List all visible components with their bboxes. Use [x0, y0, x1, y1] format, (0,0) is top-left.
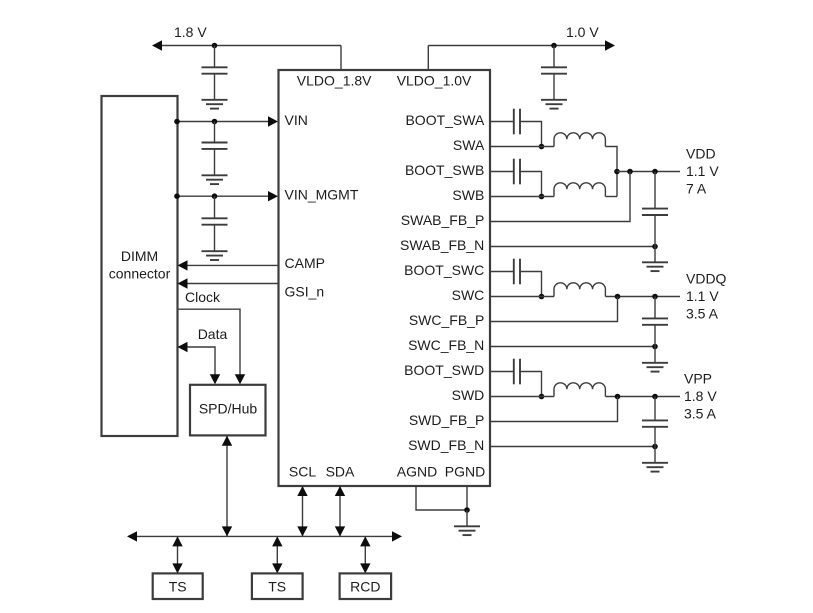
wire VIN_MGMT	[177, 195, 269, 197]
wire SWAB_FB_P	[490, 172, 630, 222]
arrowhead bus left	[127, 531, 137, 541]
svg-text:SWAB_FB_N: SWAB_FB_N	[400, 237, 484, 253]
capacitor C11 VPP output	[642, 397, 668, 447]
wire VLDO_1.8V to rail	[340, 46, 342, 72]
wire bus to RCD	[364, 536, 366, 573]
wire VLDO_1.0V to rail	[427, 46, 429, 72]
wire SDA to bus	[339, 486, 341, 536]
svg-text:1.1 V: 1.1 V	[686, 163, 719, 179]
wire I2C bus	[136, 535, 393, 537]
arrowhead bus to TS2 up	[272, 536, 282, 546]
node junction BOOT_SWC switch	[539, 294, 545, 300]
capacitor C7 VDD output	[642, 172, 668, 247]
wire Clock DIMM to SPD/Hub	[178, 309, 241, 375]
svg-text:SCL: SCL	[289, 464, 316, 480]
wire SWD_FB_P	[490, 397, 618, 422]
capacitor C5 bootstrap	[514, 109, 520, 135]
wire BOOT_SWD boot	[490, 371, 514, 373]
block TS2	[252, 573, 303, 599]
svg-text:VIN: VIN	[285, 112, 308, 128]
inductor L3 on SWC	[554, 283, 605, 297]
capacitor C8 bootstrap	[514, 259, 520, 285]
svg-text:3.5 A: 3.5 A	[684, 406, 717, 422]
ground GND6	[642, 347, 668, 372]
wire SWC_FB_N	[490, 346, 655, 348]
arrowhead SDA to bus up	[335, 486, 345, 496]
wire SWAB_FB_N	[490, 246, 655, 248]
arrowhead bus to RCD down	[360, 563, 370, 573]
wire SWD	[490, 396, 554, 398]
svg-text:Clock: Clock	[185, 289, 221, 305]
svg-text:3.5 A: 3.5 A	[686, 306, 719, 322]
svg-text:1.8 V: 1.8 V	[174, 24, 207, 40]
svg-text:1.8 V: 1.8 V	[684, 388, 717, 404]
svg-text:1.1 V: 1.1 V	[686, 288, 719, 304]
wire SWB inductor out	[605, 196, 617, 198]
wire SWB	[490, 196, 554, 198]
node junction BOOT_SWD switch	[539, 394, 545, 400]
svg-text:CAMP: CAMP	[285, 255, 325, 271]
net VDDQ rail	[605, 296, 680, 298]
capacitor C6 bootstrap	[514, 159, 520, 185]
node junction VIN at DIMM	[174, 119, 180, 125]
svg-text:RCD: RCD	[350, 578, 380, 594]
net 1.0V rail wire	[428, 45, 606, 47]
svg-text:SWD: SWD	[452, 387, 485, 403]
arrowhead SPD/Hub to bus down	[222, 526, 232, 536]
node junction VDDQ FB tap	[615, 294, 621, 300]
svg-text:VLDO_1.0V: VLDO_1.0V	[397, 73, 472, 89]
arrowhead Data into DIMM	[178, 342, 188, 352]
ground GND1	[202, 100, 228, 109]
svg-text:7 A: 7 A	[686, 181, 707, 197]
node junction VPP cap tap	[652, 394, 658, 400]
wire BOOT_SWC boot	[490, 271, 514, 273]
capacitor C10 bootstrap	[514, 359, 520, 385]
capacitor C9 VDDQ output	[642, 297, 668, 347]
wire SCL to bus	[302, 486, 304, 536]
capacitor C3 on VIN	[202, 122, 228, 176]
node junction VIN_MGMT cap tap	[212, 193, 218, 199]
arrowhead bus right	[392, 531, 402, 541]
node junction VDD phase join	[614, 169, 620, 175]
node junction VPP FB tap	[615, 394, 621, 400]
svg-text:SWC: SWC	[452, 287, 485, 303]
svg-text:TS: TS	[268, 578, 286, 594]
node junction VIN cap tap	[212, 119, 218, 125]
wire PGND	[466, 486, 468, 510]
arrowhead VIN_MGMT into U1	[268, 191, 278, 201]
svg-text:SWB: SWB	[452, 187, 484, 203]
wire bus to TS1	[177, 536, 179, 573]
svg-text:TS: TS	[169, 578, 187, 594]
node junction BOOT_SWB switch	[539, 194, 545, 200]
node junction VDD FB tap	[627, 169, 633, 175]
arrowhead 1.0V rail right	[605, 40, 615, 50]
wire AGND	[416, 486, 467, 510]
svg-text:SWC_FB_N: SWC_FB_N	[408, 337, 484, 353]
block DIMM connector	[102, 96, 178, 436]
svg-text:SDA: SDA	[326, 464, 355, 480]
ground GND3	[202, 175, 228, 184]
svg-text:VDD: VDD	[686, 146, 716, 162]
inductor L2 on SWB	[554, 183, 605, 197]
net VDD rail	[617, 171, 680, 173]
arrowhead Clock into SPD/Hub	[235, 374, 245, 384]
svg-text:1.0 V: 1.0 V	[566, 24, 599, 40]
svg-text:VPP: VPP	[684, 371, 712, 387]
svg-text:AGND: AGND	[397, 464, 437, 480]
wire SWA	[490, 146, 554, 148]
node junction SWD_FB_N	[652, 444, 658, 450]
wire BOOT_SWA boot	[490, 121, 514, 123]
svg-text:Data: Data	[198, 326, 228, 342]
svg-text:BOOT_SWA: BOOT_SWA	[405, 112, 484, 128]
arrowhead GSI_n into DIMM	[178, 278, 188, 288]
arrowhead VIN into U1	[268, 116, 278, 126]
wire BOOT_SWB boot	[490, 171, 514, 173]
node junction VIN_MGMT at DIMM	[174, 193, 180, 199]
arrowhead SDA to bus down	[335, 526, 345, 536]
arrowhead bus to TS1 down	[172, 563, 182, 573]
svg-text:SWD_FB_N: SWD_FB_N	[408, 437, 484, 453]
arrowhead bus to RCD up	[360, 536, 370, 546]
ground GND8	[454, 510, 480, 535]
arrowhead 1.8V rail left	[152, 40, 162, 50]
node junction VDDQ cap tap	[652, 294, 658, 300]
node junction SWAB_FB_N	[652, 244, 658, 250]
svg-text:GSI_n: GSI_n	[285, 284, 325, 300]
svg-text:SWAB_FB_P: SWAB_FB_P	[401, 212, 485, 228]
svg-text:PGND: PGND	[445, 464, 485, 480]
wire bus to TS2	[276, 536, 278, 573]
wire SWD_FB_N	[490, 446, 655, 448]
wire Data DIMM to SPD/Hub	[187, 347, 215, 375]
IC U1 body	[279, 70, 491, 486]
svg-text:BOOT_SWB: BOOT_SWB	[405, 162, 484, 178]
node junction 1.0V cap tap	[551, 43, 557, 49]
svg-text:DIMM: DIMM	[121, 248, 158, 264]
arrowhead bus to TS2 down	[272, 563, 282, 573]
wire GSI_n	[187, 283, 279, 285]
arrowhead SCL to bus up	[297, 486, 307, 496]
capacitor C4 on VIN_MGMT	[202, 196, 228, 251]
node junction SWC_FB_N	[652, 344, 658, 350]
wire SWA inductor to VDD node	[605, 147, 617, 197]
block SPD/Hub	[190, 385, 266, 436]
wire BOOT_SWD boot to switch node	[520, 372, 542, 397]
node junction AGND-PGND	[464, 507, 470, 513]
svg-text:VLDO_1.8V: VLDO_1.8V	[297, 73, 372, 89]
wire BOOT_SWB boot to switch node	[520, 172, 542, 197]
node junction BOOT_SWA switch	[539, 144, 545, 150]
wire VIN	[177, 121, 269, 123]
capacitor C2 on 1.0V rail	[541, 46, 567, 100]
svg-text:SWC_FB_P: SWC_FB_P	[409, 312, 484, 328]
arrowhead Data into SPD/Hub	[210, 374, 220, 384]
wire CAMP	[187, 264, 279, 266]
svg-text:SWD_FB_P: SWD_FB_P	[409, 412, 484, 428]
svg-text:VIN_MGMT: VIN_MGMT	[285, 187, 359, 203]
wire SPD/Hub to bus	[226, 436, 228, 537]
wire SWC_FB_P	[490, 297, 618, 322]
net VPP rail	[605, 396, 680, 398]
svg-text:SWA: SWA	[453, 137, 485, 153]
inductor L4 on SWD	[554, 383, 605, 397]
svg-text:SPD/Hub: SPD/Hub	[199, 400, 258, 416]
svg-text:VDDQ: VDDQ	[686, 271, 727, 287]
svg-text:BOOT_SWC: BOOT_SWC	[404, 262, 484, 278]
svg-text:connector: connector	[109, 265, 171, 281]
arrowhead SPD/Hub to bus up	[222, 436, 232, 446]
wire BOOT_SWA boot to switch node	[520, 122, 542, 147]
arrowhead bus to TS1 up	[172, 536, 182, 546]
capacitor C1 on 1.8V rail	[202, 46, 228, 100]
arrowhead SCL to bus down	[297, 526, 307, 536]
ground GND5	[642, 247, 668, 272]
wire BOOT_SWC boot to switch node	[520, 272, 542, 297]
svg-text:BOOT_SWD: BOOT_SWD	[404, 362, 484, 378]
ground GND4	[202, 251, 228, 260]
node junction VDD cap tap	[652, 169, 658, 175]
ground GND2	[541, 100, 567, 109]
block TS1	[153, 573, 203, 599]
arrowhead CAMP into DIMM	[178, 260, 188, 270]
inductor L1 on SWA	[554, 133, 605, 147]
wire SWC	[490, 296, 554, 298]
net 1.8V rail wire	[160, 45, 341, 47]
block RCD	[340, 573, 392, 599]
ground GND7	[642, 447, 668, 472]
node junction 1.8V cap tap	[212, 43, 218, 49]
